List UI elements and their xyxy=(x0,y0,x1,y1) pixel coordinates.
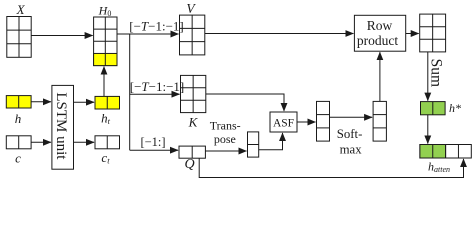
matrix Q xyxy=(179,146,205,158)
wire c to LSTM xyxy=(31,141,51,143)
wire softmax output up to Row product xyxy=(379,52,381,101)
matrix K xyxy=(181,75,206,112)
matrix softmax input xyxy=(317,101,330,141)
svg-text:h: h xyxy=(15,111,22,126)
svg-text:pose: pose xyxy=(214,132,236,146)
svg-text:V: V xyxy=(186,1,196,16)
wire branch to K xyxy=(130,93,180,95)
svg-text:Row: Row xyxy=(367,18,393,33)
matrix c xyxy=(6,136,31,149)
wire h to LSTM xyxy=(31,101,51,103)
svg-text:h*: h* xyxy=(449,101,461,115)
matrix h_t xyxy=(95,96,120,109)
wire H0 to V xyxy=(117,33,179,35)
Row product box xyxy=(354,15,405,51)
wire V to Row product xyxy=(205,33,354,35)
wire LSTM to h_t xyxy=(74,101,95,103)
svg-text:Soft-: Soft- xyxy=(337,127,363,141)
svg-text:LSTM unit: LSTM unit xyxy=(53,92,69,160)
svg-text:H0: H0 xyxy=(98,4,112,19)
wire transpose to ASF bottom xyxy=(259,133,283,150)
svg-text:K: K xyxy=(188,114,199,129)
svg-text:product: product xyxy=(357,33,398,48)
wire h_t up to H0 xyxy=(103,67,105,97)
matrix X xyxy=(7,17,31,58)
LSTM unit box xyxy=(52,85,74,169)
wire K to ASF top xyxy=(206,94,284,111)
wire junction vertical xyxy=(129,34,131,150)
svg-text:X: X xyxy=(16,2,26,17)
wire h* to h_atten xyxy=(427,115,429,144)
matrix h* xyxy=(421,102,446,115)
svg-text:[−T−1:−1]: [−T−1:−1] xyxy=(129,19,184,34)
wire branch to Q xyxy=(130,149,178,151)
wire X to H0 xyxy=(31,35,92,37)
svg-text:Sum: Sum xyxy=(427,59,444,87)
ASF box xyxy=(270,112,297,132)
svg-text:ht: ht xyxy=(101,111,111,127)
svg-text:ct: ct xyxy=(101,150,110,166)
wire softmax xyxy=(330,116,373,118)
svg-text:[−1:]: [−1:] xyxy=(140,135,165,149)
matrix transposed Q xyxy=(248,132,259,157)
svg-text:c: c xyxy=(15,151,21,166)
svg-text:max: max xyxy=(340,142,363,156)
matrix h_atten xyxy=(420,145,471,159)
matrix V xyxy=(180,15,205,55)
wire feedback Q to h_atten xyxy=(199,158,463,177)
wire Q to transpose matrix xyxy=(205,150,246,152)
wire LSTM to c_t xyxy=(74,141,95,143)
svg-text:Q: Q xyxy=(184,157,194,172)
svg-text:ASF: ASF xyxy=(273,118,294,130)
matrix h xyxy=(6,96,31,108)
wire Sum arrow xyxy=(427,52,429,101)
svg-text:[−T−1:−1]: [−T−1:−1] xyxy=(130,79,185,94)
wire ASF to softmax input xyxy=(297,121,316,123)
matrix H0 xyxy=(94,17,117,66)
matrix softmax output xyxy=(373,101,386,141)
wire Row product to output matrix xyxy=(406,33,419,35)
matrix row product output xyxy=(420,14,446,52)
svg-text:hatten: hatten xyxy=(428,160,450,175)
matrix c_t xyxy=(95,136,120,149)
svg-text:Trans-: Trans- xyxy=(210,119,241,133)
